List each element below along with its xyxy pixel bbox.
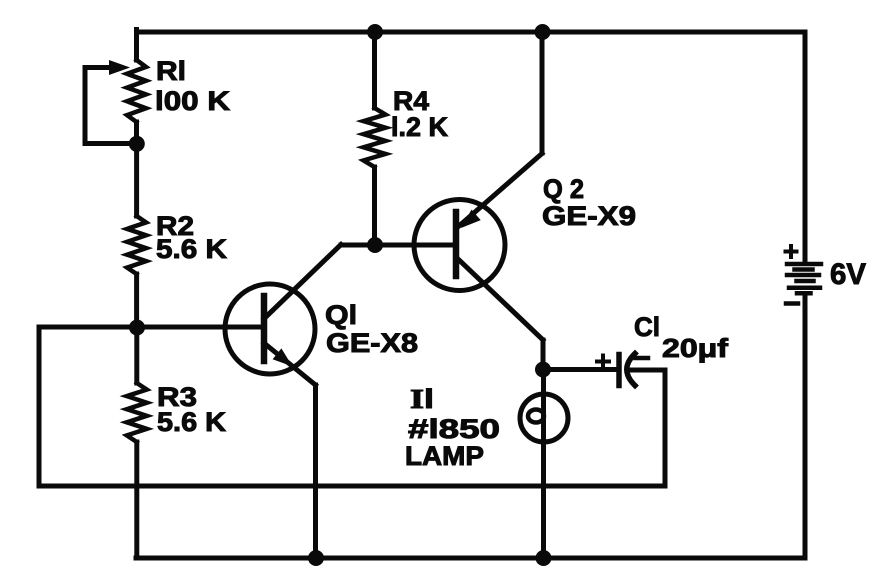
wire lamp branch through: [541, 369, 546, 558]
Q1 emitter arrow: [273, 348, 293, 366]
node Q2 collector junction: [535, 362, 551, 378]
wire bottom rail: [136, 556, 805, 561]
resistor R3: [127, 383, 147, 442]
wire C1 right lead: [631, 368, 665, 373]
wire Q1 collector to Q2 base: [341, 243, 456, 248]
svg-text:GE-X8: GE-X8: [326, 328, 418, 358]
C1 minus sign: [636, 356, 649, 361]
wire R4 bottom lead: [372, 167, 377, 245]
wire base junction to left: [39, 325, 137, 330]
Q2 emitter arrow: [461, 210, 481, 228]
svg-text:Il: Il: [410, 384, 434, 414]
lamp I1: [520, 394, 568, 442]
C1 plus sign: [597, 356, 609, 368]
node Q2 emitter top junction: [535, 24, 551, 40]
svg-text:6V: 6V: [830, 258, 866, 291]
wire Q2 collector to lamp: [541, 340, 546, 369]
svg-text:l00 K: l00 K: [155, 86, 231, 116]
wire R3 top lead: [134, 327, 139, 383]
svg-text:Ql: Ql: [325, 300, 357, 330]
resistor R4: [364, 108, 386, 167]
node R4 top junction: [367, 24, 383, 40]
wire left vertical: [37, 327, 42, 486]
svg-text:20μf: 20μf: [662, 333, 728, 363]
potentiometer R1: [127, 60, 146, 122]
transistor Q1: [225, 245, 341, 386]
wire battery bottom lead: [803, 296, 808, 558]
wire top rail: [137, 30, 806, 35]
svg-text:GE-X9: GE-X9: [542, 201, 636, 231]
battery B1: [787, 264, 821, 293]
lamp I1 filament loop: [528, 410, 544, 423]
svg-text:#l850: #l850: [408, 414, 500, 444]
svg-text:LAMP: LAMP: [405, 441, 484, 471]
wire R1 bottom lead: [134, 122, 139, 144]
node R1 wiper junction: [129, 136, 145, 152]
wire Q1 emitter vertical: [313, 385, 318, 558]
node Q1 emitter bottom junction: [308, 550, 324, 566]
node lamp bottom junction: [536, 550, 552, 566]
wire R2 top lead: [134, 144, 139, 216]
wire Q2 emitter vertical: [540, 32, 545, 153]
wire Q1 base: [137, 325, 262, 330]
svg-text:l.2 K: l.2 K: [391, 112, 448, 142]
R1 wiper arrow: [109, 60, 130, 75]
svg-text:5.6 K: 5.6 K: [156, 234, 228, 264]
battery minus sign: [786, 301, 798, 306]
capacitor C1: [619, 354, 635, 386]
svg-text:Rl: Rl: [156, 56, 186, 86]
svg-text:5.6 K: 5.6 K: [157, 407, 227, 437]
wire R1 top lead: [134, 30, 139, 61]
node Q1 base junction: [129, 320, 145, 336]
wire R2 bottom lead: [134, 274, 139, 327]
svg-text:Cl: Cl: [634, 312, 660, 342]
battery plus sign: [786, 246, 797, 257]
wire battery top lead: [803, 32, 808, 261]
wire C1 loop right vertical: [663, 370, 668, 486]
wire C1 left lead: [543, 367, 619, 372]
resistor R2: [127, 216, 146, 274]
wire R1 wiper return: [85, 68, 137, 144]
wire R3 bottom lead: [134, 442, 139, 558]
wire R4 top lead: [372, 32, 377, 108]
svg-text:Q 2: Q 2: [543, 174, 584, 204]
wire C1 return bottom: [39, 484, 665, 489]
node R4 bottom junction: [367, 237, 383, 253]
transistor Q2: [414, 154, 543, 341]
